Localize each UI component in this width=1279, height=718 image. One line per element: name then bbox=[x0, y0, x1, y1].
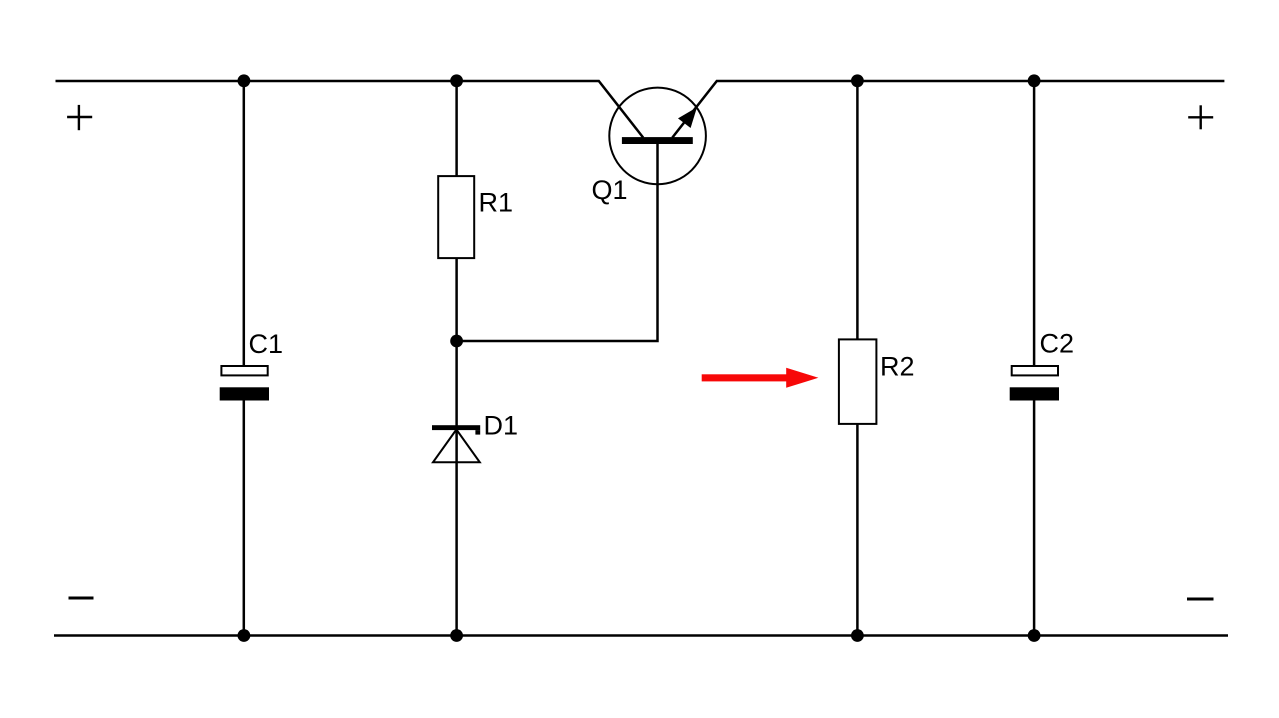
svg-text:R2: R2 bbox=[880, 352, 915, 382]
svg-text:D1: D1 bbox=[484, 411, 519, 441]
svg-text:Q1: Q1 bbox=[592, 175, 628, 205]
svg-text:C1: C1 bbox=[249, 329, 284, 359]
svg-text:R1: R1 bbox=[479, 188, 514, 218]
svg-text:C2: C2 bbox=[1040, 329, 1075, 359]
